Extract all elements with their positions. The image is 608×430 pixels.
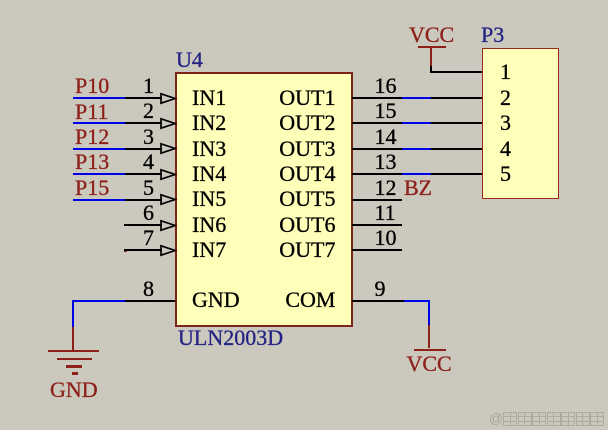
pin name COM (235, 289, 336, 311)
pin name OUT5 (235, 188, 336, 210)
connector P3 pin 1 number (500, 61, 511, 83)
power port VCC (top) bar (418, 46, 446, 48)
pin 4 input arrow (160, 168, 177, 181)
connector P3 pin 4 number (500, 138, 511, 160)
pin name OUT3 (235, 138, 336, 160)
connector P3 pin 4 wire (431, 148, 483, 150)
ground symbol bar 2 (57, 358, 92, 361)
pin number 11 (375, 202, 396, 224)
pin number 7 (114, 227, 154, 249)
wire net P11 (blue) (73, 122, 125, 124)
net label P11 (75, 101, 108, 123)
wire VCC to P3 vertical (black) (430, 66, 432, 73)
net label P15 (75, 177, 109, 199)
connector P3 pin 2 number (500, 87, 511, 109)
pin 2 input arrow (160, 117, 177, 130)
ground symbol bar 3 (66, 365, 82, 368)
pin name OUT1 (235, 87, 336, 109)
connector P3 pin 2 wire (431, 97, 483, 99)
pin 7 end tick (124, 249, 128, 251)
value label ULN2003D (178, 327, 283, 349)
label GND (50, 379, 98, 401)
wire net P13 (blue) (73, 173, 125, 175)
wire to P3 (blue) (402, 122, 431, 124)
pin 7 wire (124, 249, 162, 251)
pin 13 wire (352, 173, 402, 175)
designator U4 (176, 49, 203, 71)
wire to P3 (blue) (402, 148, 431, 150)
pin 6 input arrow (160, 219, 177, 232)
pin number 16 (375, 75, 397, 97)
pin number 4 (114, 151, 154, 173)
wire net P12 (blue) (73, 148, 125, 150)
wire to VCC vertical (dark red) (428, 325, 430, 349)
pin name IN7 (192, 239, 226, 261)
pin 1 input arrow (160, 92, 177, 105)
pin 3 wire (125, 148, 162, 150)
label VCC (top) (409, 24, 454, 46)
connector P3 pin 3 number (500, 112, 511, 134)
pin number 2 (114, 100, 154, 122)
wire COM net (blue) (404, 300, 430, 302)
IC U4 ULN2003D body (175, 72, 353, 327)
pin name OUT2 (235, 112, 336, 134)
pin number 15 (375, 100, 397, 122)
wire GND net horizontal (blue) (72, 300, 125, 302)
pin 3 input arrow (160, 142, 177, 155)
pin name IN5 (192, 188, 226, 210)
designator P3 (481, 24, 504, 46)
pin 8 wire (125, 300, 175, 302)
pin 12 wire (352, 199, 402, 201)
wire net P15 (blue) (73, 199, 125, 201)
pin number 8 (114, 278, 154, 300)
pin 9 wire (352, 300, 404, 302)
ground symbol bar 1 (48, 350, 99, 353)
pin name IN6 (192, 214, 226, 236)
watermark (489, 410, 605, 426)
pin name OUT4 (235, 163, 336, 185)
pin number 1 (114, 75, 154, 97)
pin 4 wire (125, 173, 162, 175)
pin 1 wire (125, 97, 162, 99)
pin name OUT7 (235, 239, 336, 261)
net label BZ (404, 177, 432, 199)
pin 15 wire (352, 122, 402, 124)
pin 10 wire (352, 249, 402, 251)
pin name IN2 (192, 112, 226, 134)
wire to P3 (blue) (402, 97, 431, 99)
pin number 14 (375, 126, 397, 148)
pin name IN4 (192, 163, 226, 185)
pin name IN1 (192, 87, 226, 109)
pin number 5 (114, 177, 154, 199)
connector P3 pin 3 wire (431, 122, 483, 124)
pin 5 input arrow (160, 193, 177, 206)
wire GND net vertical (dark red) (72, 327, 74, 350)
pin 2 wire (125, 122, 162, 124)
label VCC (bottom) (407, 353, 452, 375)
wire net P10 (blue) (73, 97, 125, 99)
pin name IN3 (192, 138, 226, 160)
pin number 12 (375, 177, 397, 199)
pin 16 wire (352, 97, 402, 99)
power port VCC (top) stem (dark red) (430, 48, 432, 66)
wire COM net vertical (blue) (428, 300, 430, 325)
pin number 13 (375, 151, 397, 173)
net label P12 (75, 126, 109, 148)
power port VCC (bottom) bar (414, 349, 446, 352)
wire to P3 (blue) (402, 173, 431, 175)
pin number 10 (375, 227, 397, 249)
pin 5 wire (125, 199, 162, 201)
pin 7 input arrow (160, 244, 177, 257)
connector P3 body (482, 48, 559, 199)
wire GND net vertical (blue) (72, 300, 74, 327)
pin number 6 (114, 202, 154, 224)
connector P3 pin 5 wire (431, 173, 483, 175)
net label P13 (75, 151, 109, 173)
pin name GND (192, 289, 240, 311)
ground symbol bar 4 (72, 372, 78, 375)
net label P10 (75, 75, 109, 97)
pin 14 wire (352, 148, 402, 150)
pin number 9 (375, 278, 386, 300)
connector P3 pin 5 number (500, 163, 511, 185)
pin name OUT6 (235, 214, 336, 236)
pin 6 wire (124, 224, 162, 226)
pin number 3 (114, 126, 154, 148)
connector P3 pin 1 wire (431, 71, 482, 73)
pin 11 wire (352, 224, 402, 226)
